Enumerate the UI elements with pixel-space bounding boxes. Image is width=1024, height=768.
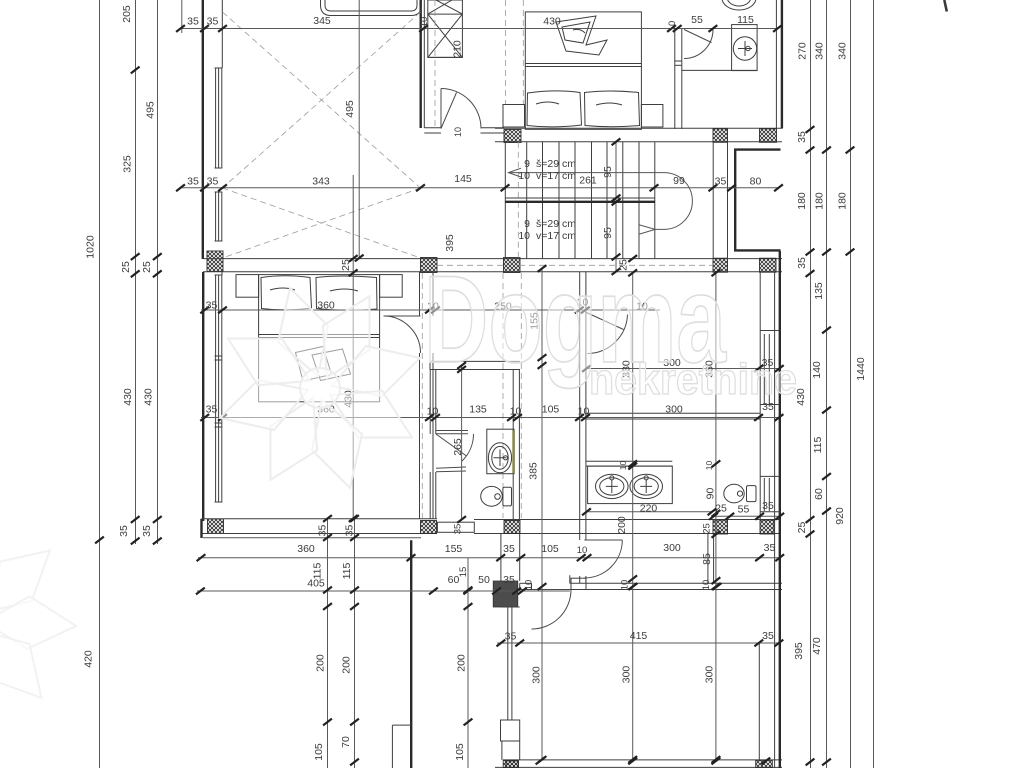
door bedroom1 <box>441 89 481 129</box>
watermark corner logo bottom-left <box>0 512 80 729</box>
svg-text:25: 25 <box>715 503 727 515</box>
dashed line bedroom2 right <box>421 273 423 518</box>
svg-text:115: 115 <box>812 436 824 453</box>
hall dashes <box>434 0 436 128</box>
dim vert x353 <box>352 175 354 519</box>
pier bottom stair <box>506 761 519 768</box>
hall bottom wall <box>430 360 520 362</box>
right wall niche closures <box>760 330 780 332</box>
svg-text:25: 25 <box>141 261 153 273</box>
watermark pinwheel logo <box>220 288 421 489</box>
svg-text:35: 35 <box>118 525 130 537</box>
svg-text:š=29 cm: š=29 cm <box>536 158 576 170</box>
dim y417 <box>201 417 779 419</box>
svg-text:200: 200 <box>616 516 628 534</box>
window left upper 2 <box>215 192 217 241</box>
dressing room door <box>587 313 624 330</box>
stair right wall thin <box>712 142 714 259</box>
svg-text:430: 430 <box>543 16 561 28</box>
door left stub <box>520 582 532 584</box>
sink bath2 <box>488 443 511 473</box>
nightstand left of bed1 <box>503 105 525 128</box>
svg-text:85: 85 <box>701 553 713 565</box>
svg-text:430: 430 <box>122 388 134 406</box>
svg-text:10: 10 <box>518 230 530 242</box>
svg-text:10: 10 <box>577 545 588 556</box>
svg-text:920: 920 <box>834 507 846 525</box>
svg-text:35: 35 <box>207 176 219 188</box>
pier wallC 5 <box>760 520 774 534</box>
svg-text:25: 25 <box>340 259 352 271</box>
svg-text:395: 395 <box>444 234 456 252</box>
notch step left of wall y583 <box>569 575 571 583</box>
svg-text:200: 200 <box>341 656 353 674</box>
svg-text:v=17 cm: v=17 cm <box>536 230 576 242</box>
svg-text:35: 35 <box>796 131 808 143</box>
pier stairA 2 <box>713 129 728 143</box>
dim line left inner 205/325 <box>135 0 137 544</box>
svg-text:345: 345 <box>313 15 331 27</box>
sink bath1 <box>733 37 756 60</box>
vanity sinks <box>596 474 629 498</box>
svg-text:90: 90 <box>705 488 717 500</box>
stair walk U-turn <box>655 173 692 230</box>
svg-text:105: 105 <box>313 743 325 761</box>
window sill bottom centre <box>501 720 520 741</box>
wall 708-714 top band <box>707 534 709 583</box>
dim y643 <box>497 642 779 644</box>
svg-text:265: 265 <box>452 438 464 456</box>
right wall middle <box>759 272 761 520</box>
pier stairA 3 <box>760 129 777 143</box>
svg-text:470: 470 <box>811 637 823 655</box>
svg-text:325: 325 <box>122 155 134 173</box>
dim vert x359 (495) <box>358 0 360 258</box>
bedroom2 right wall lower <box>419 353 421 519</box>
wall B horizontal main <box>203 258 782 260</box>
dim right x850 <box>850 0 852 768</box>
planter top rounded rect <box>325 0 417 11</box>
dim right x810 <box>810 0 812 768</box>
svg-text:35: 35 <box>762 630 774 642</box>
nightstand bed2 left <box>236 275 259 298</box>
svg-text:205: 205 <box>121 5 133 23</box>
right wall window glazing upper <box>763 334 765 404</box>
svg-text:15: 15 <box>458 567 469 578</box>
svg-text:35: 35 <box>141 525 153 537</box>
bedroom2 door <box>384 315 421 317</box>
dim vert x468 <box>467 558 469 768</box>
pier bottom 2 <box>756 760 773 768</box>
vanity bath3 <box>588 466 673 504</box>
sink cabinet bath2 <box>487 429 514 474</box>
pier wallB 3 <box>713 258 728 272</box>
svg-text:343: 343 <box>312 176 330 188</box>
svg-text:80: 80 <box>750 176 762 188</box>
dim y512 vanity 220 <box>587 511 713 513</box>
svg-text:10: 10 <box>419 17 430 28</box>
svg-text:155: 155 <box>445 543 463 555</box>
svg-text:9: 9 <box>524 218 530 230</box>
terrace slab edge line below wallC <box>203 537 421 539</box>
svg-text:25: 25 <box>702 523 713 534</box>
svg-text:95: 95 <box>602 166 614 178</box>
bed1 top bedroom <box>525 12 641 129</box>
dim y516 bath3 <box>714 515 780 517</box>
svg-text:95: 95 <box>602 227 614 239</box>
svg-text:180: 180 <box>837 192 849 210</box>
toilet bath2 <box>503 487 512 506</box>
pier wallC 3 <box>504 521 520 534</box>
svg-text:35: 35 <box>453 524 464 535</box>
svg-text:300: 300 <box>621 666 633 684</box>
pier wallB 1 <box>421 258 438 273</box>
svg-text:25: 25 <box>120 261 132 273</box>
wall left upper exterior <box>202 0 204 259</box>
bed2 blanket <box>296 347 332 382</box>
svg-text:35: 35 <box>187 16 199 28</box>
svg-text:420: 420 <box>83 650 95 668</box>
bed2 <box>259 275 380 402</box>
dim vert x354 <box>354 519 356 768</box>
window end cap <box>215 240 223 242</box>
window left lower <box>221 272 223 275</box>
svg-text:š=29 cm: š=29 cm <box>536 218 576 230</box>
svg-text:35: 35 <box>796 257 808 269</box>
bed1 pillows <box>527 91 640 127</box>
dim right x827 <box>826 0 828 768</box>
dim vert x715 <box>715 273 717 761</box>
svg-text:35: 35 <box>206 300 218 312</box>
nightstand right of bed1 <box>641 105 663 128</box>
dashes near bath2 <box>502 273 504 518</box>
dim top y28 <box>181 28 778 30</box>
nightstand bed2 right <box>380 275 403 298</box>
step bottom-left <box>392 724 411 726</box>
svg-text:10: 10 <box>701 580 712 591</box>
svg-text:210: 210 <box>452 40 464 58</box>
vanity half wall <box>586 460 672 462</box>
svg-text:70: 70 <box>340 736 352 748</box>
svg-text:99: 99 <box>673 175 685 187</box>
svg-text:10: 10 <box>453 127 463 137</box>
stair landing divider <box>505 197 655 199</box>
svg-text:35: 35 <box>206 404 218 416</box>
window black head <box>493 581 518 607</box>
bath2 left wall <box>429 370 431 435</box>
dim vert x542 <box>541 269 543 762</box>
wall lower-left vertical <box>410 540 412 768</box>
svg-text:35: 35 <box>762 500 774 512</box>
svg-text:395: 395 <box>793 642 805 660</box>
stair walk line upper <box>509 172 664 174</box>
svg-text:35: 35 <box>505 631 517 643</box>
svg-text:495: 495 <box>344 100 356 118</box>
toilet bath3 <box>747 486 757 502</box>
svg-text:180: 180 <box>796 192 808 210</box>
shaft crossed <box>428 0 463 57</box>
svg-text:10: 10 <box>524 580 535 591</box>
svg-text:35: 35 <box>317 525 329 537</box>
closet left wall lower <box>579 576 581 583</box>
svg-text:60: 60 <box>813 488 825 500</box>
threshold below bath2 <box>437 522 474 532</box>
svg-text:270: 270 <box>797 42 809 60</box>
pier wallC left <box>208 519 224 534</box>
stair treads <box>526 142 528 259</box>
svg-text:200: 200 <box>315 654 327 672</box>
svg-text:261: 261 <box>579 175 597 187</box>
svg-text:9: 9 <box>524 158 530 170</box>
svg-text:145: 145 <box>454 173 472 185</box>
right wall window glazing lower <box>763 478 765 511</box>
jamb rect <box>571 578 586 589</box>
svg-text:115: 115 <box>341 562 353 579</box>
dim y310 <box>201 309 660 311</box>
dim y557 <box>198 557 780 559</box>
svg-text:115: 115 <box>312 562 324 579</box>
window glazing bottom centre <box>507 607 509 720</box>
svg-text:10: 10 <box>618 461 628 471</box>
bed2 pillows <box>261 276 377 310</box>
dim line left inner2 495 <box>157 0 159 544</box>
dim y761 bottom ticks <box>536 758 545 765</box>
svg-text:10: 10 <box>619 580 630 591</box>
wall bedroom1 left (x=421) <box>420 0 422 128</box>
wall below sill <box>501 741 503 760</box>
svg-text:10: 10 <box>510 406 522 418</box>
svg-text:v=17 cm: v=17 cm <box>536 170 576 182</box>
bath2 right wall <box>512 370 514 520</box>
pier wallB 4 <box>760 258 777 272</box>
wall left lower exterior <box>202 272 204 521</box>
pier wallB 2 <box>504 258 521 273</box>
svg-text:140: 140 <box>811 361 823 379</box>
stairwell left wall line <box>504 142 506 259</box>
pier stairA 1 <box>504 130 521 143</box>
svg-text:35: 35 <box>207 16 219 28</box>
north arrow fragment top right <box>944 0 947 12</box>
wall C horizontal <box>202 518 438 520</box>
svg-text:35: 35 <box>503 543 515 555</box>
svg-text:55: 55 <box>738 504 750 516</box>
svg-text:10: 10 <box>704 461 714 471</box>
svg-text:55: 55 <box>691 14 703 26</box>
door bath1 <box>684 30 713 59</box>
dim stair vertical x616 <box>615 142 617 272</box>
svg-text:135: 135 <box>813 282 825 300</box>
svg-text:385: 385 <box>528 462 540 480</box>
dim y188 <box>181 187 779 189</box>
svg-text:50: 50 <box>478 574 490 586</box>
bath1 floor line <box>682 69 758 71</box>
svg-text:360: 360 <box>317 300 335 312</box>
svg-text:135: 135 <box>469 404 487 416</box>
svg-text:10: 10 <box>427 406 439 418</box>
svg-text:180: 180 <box>814 192 826 210</box>
stairwell dashes <box>517 142 519 259</box>
svg-text:35: 35 <box>715 176 727 188</box>
wall C right part <box>474 519 780 521</box>
sink cabinet bath1 <box>732 25 758 71</box>
stair top wall band <box>495 127 782 129</box>
svg-text:105: 105 <box>454 743 466 761</box>
svg-text:35: 35 <box>344 525 356 537</box>
wall y583 horizontal <box>570 582 782 584</box>
closet door lower <box>584 539 622 541</box>
svg-text:10: 10 <box>667 21 678 32</box>
svg-text:35: 35 <box>764 542 776 554</box>
window left upper <box>215 68 217 168</box>
svg-text:1440: 1440 <box>855 357 867 381</box>
partition bath1 <box>674 29 676 130</box>
recess thick outline right <box>735 150 780 251</box>
svg-text:nekretnine: nekretnine <box>589 355 797 404</box>
svg-text:200: 200 <box>456 654 468 672</box>
dim right x873 <box>873 0 875 768</box>
window wall bottom centre <box>500 534 502 581</box>
bed1 blanket <box>556 16 607 55</box>
svg-text:300: 300 <box>665 404 683 416</box>
closet left wall <box>579 272 581 540</box>
svg-text:495: 495 <box>145 101 157 119</box>
svg-text:340: 340 <box>837 42 849 60</box>
svg-text:105: 105 <box>541 543 559 555</box>
right wall lower <box>758 643 760 760</box>
svg-text:10: 10 <box>578 406 590 418</box>
bath2 door <box>436 430 468 432</box>
dim vert x461 (265) <box>461 365 463 520</box>
svg-text:430: 430 <box>143 388 155 406</box>
dim vert x632 <box>632 273 634 761</box>
wall bedroom1 bottom with door opening <box>424 127 441 129</box>
dim y368 <box>586 368 779 370</box>
pier wallC 4 <box>713 520 728 534</box>
svg-text:360: 360 <box>297 543 315 555</box>
svg-text:25: 25 <box>796 522 808 534</box>
svg-text:415: 415 <box>630 630 648 642</box>
svg-text:1020: 1020 <box>85 235 97 259</box>
svg-text:300: 300 <box>704 666 716 684</box>
wall between dressing and bath3 <box>586 412 760 414</box>
dim vert x327 <box>327 519 329 768</box>
svg-text:340: 340 <box>814 42 826 60</box>
svg-text:300: 300 <box>531 666 543 684</box>
svg-text:35: 35 <box>503 574 515 586</box>
svg-text:105: 105 <box>542 404 560 416</box>
pier left corner <box>207 251 223 272</box>
wallB dashed continuation <box>437 264 503 266</box>
svg-text:300: 300 <box>663 542 681 554</box>
door bottom centre room <box>532 589 572 591</box>
svg-text:10: 10 <box>518 170 530 182</box>
bottom wall band <box>503 759 782 761</box>
svg-text:35: 35 <box>187 176 199 188</box>
dim y590 <box>197 590 570 592</box>
svg-text:220: 220 <box>640 503 658 515</box>
toilet bath1 (cut top) <box>722 0 756 10</box>
dim line far left 1020/420 <box>99 0 101 768</box>
terrace X upper <box>223 12 421 188</box>
terrace X lower <box>223 188 421 258</box>
pier bottom 1 <box>503 760 518 768</box>
svg-text:115: 115 <box>737 14 754 26</box>
bedroom2 right wall upper <box>419 272 421 316</box>
right wall upper <box>775 0 777 129</box>
pier wallC mid <box>421 521 437 534</box>
